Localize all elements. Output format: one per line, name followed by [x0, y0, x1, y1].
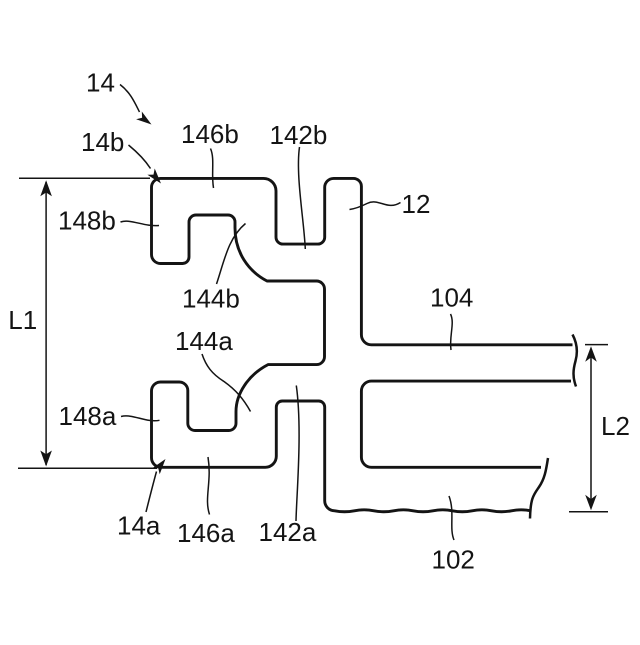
svg-text:144b: 144b: [182, 283, 240, 313]
svg-text:146b: 146b: [181, 119, 239, 149]
svg-text:142b: 142b: [270, 120, 328, 150]
svg-text:L2: L2: [601, 411, 630, 441]
svg-text:14b: 14b: [81, 127, 124, 157]
svg-text:148b: 148b: [58, 205, 116, 235]
svg-text:104: 104: [430, 283, 473, 313]
svg-text:102: 102: [432, 544, 475, 574]
svg-text:14a: 14a: [117, 511, 161, 541]
svg-text:14: 14: [86, 68, 115, 98]
svg-text:148a: 148a: [59, 401, 117, 431]
svg-text:L1: L1: [8, 305, 37, 335]
svg-text:142a: 142a: [259, 517, 317, 547]
svg-text:144a: 144a: [175, 326, 233, 356]
svg-text:12: 12: [402, 189, 431, 219]
svg-text:146a: 146a: [177, 518, 235, 548]
